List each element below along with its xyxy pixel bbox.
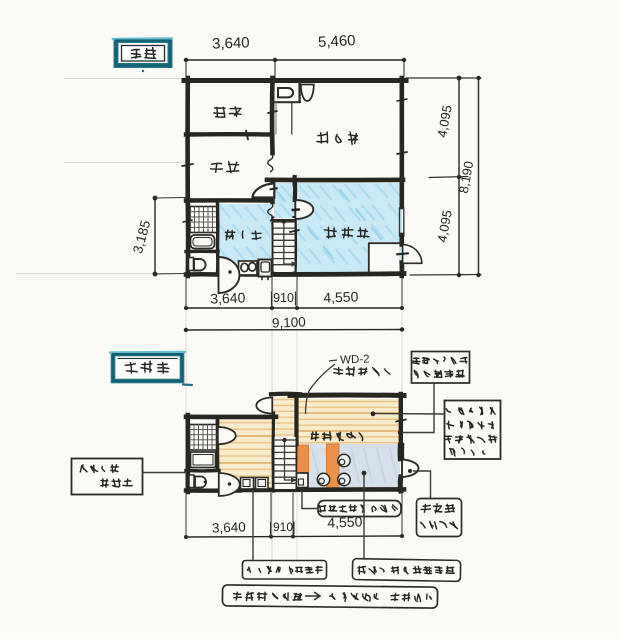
tick right wall upper: [397, 152, 407, 154]
dansa box: [352, 559, 460, 582]
faint vertical guides between plans: [185, 278, 187, 532]
dimension line top 3640-5460: [184, 58, 406, 81]
mid strip left wall: [271, 413, 275, 491]
washbasin counter top plan: [239, 261, 258, 275]
minikitchen leader: [252, 490, 254, 561]
bottom plan top wall right section: [290, 393, 404, 399]
bath wall: [186, 250, 218, 254]
top plan bottom wall left of door: [186, 272, 218, 277]
top plan right wall bottom: [399, 263, 404, 277]
tick closet: [268, 111, 277, 113]
annotation tategu label: [334, 369, 343, 370]
counter orange bar 1: [298, 445, 309, 473]
left dim 3185 line: [153, 196, 186, 277]
salon west door: [293, 180, 298, 200]
toilet box leader: [143, 472, 186, 474]
washer box: [191, 452, 216, 468]
salon entry alcove white patch: [368, 242, 399, 272]
kutsu leader: [374, 413, 444, 416]
nagashidai box: [318, 501, 401, 517]
glass leader: [402, 384, 434, 433]
mini kitchen counter: [241, 478, 269, 490]
tick left wall: [182, 164, 193, 166]
cafe stool 1: [338, 454, 350, 466]
stairs top plan: [273, 218, 298, 272]
room label butsu-shitsu: [215, 107, 225, 109]
stairwell left wall: [271, 218, 275, 273]
genkyo title box: [113, 39, 172, 73]
stairs bottom plan: [275, 437, 298, 489]
cafe wood floor: [297, 399, 401, 444]
tick butsu wall: [246, 131, 248, 140]
bottom plan right wall lower: [398, 477, 404, 491]
salon entry door: [368, 244, 370, 273]
svg-text:5,460: 5,460: [318, 32, 356, 51]
tiled bath room: [190, 207, 217, 233]
bathtub: [191, 235, 215, 249]
svg-text:910: 910: [273, 291, 294, 305]
bottom plan right wall upper: [399, 394, 403, 446]
bottom plan left wall: [186, 415, 191, 492]
top plan right wall mid: [399, 235, 404, 245]
kitchen to waiting room door: [253, 184, 275, 198]
cafe stool 3: [338, 473, 350, 485]
bottom plan top wall left section: [186, 414, 276, 419]
faint guide line left y78: [64, 78, 186, 80]
svg-text:3,640: 3,640: [210, 289, 246, 306]
stairwell white patch: [272, 218, 296, 272]
top plan right wall upper: [399, 78, 404, 207]
mid strip right wall: [294, 396, 298, 444]
glass box: [412, 352, 470, 384]
cafe stool 2: [317, 473, 329, 485]
center vertical wall upper: [270, 78, 275, 153]
salon left wall: [293, 218, 298, 273]
bottom plan right wall block: [398, 446, 405, 458]
top plan left wall lower: [186, 203, 191, 276]
toilet door arc: [301, 85, 314, 102]
washroom door: [218, 427, 236, 444]
cafe label: [311, 433, 318, 435]
counter orange bar 2: [327, 444, 340, 488]
room label chubou: [212, 162, 222, 165]
svg-text:3,640: 3,640: [212, 519, 246, 535]
svg-text:4,550: 4,550: [323, 288, 359, 305]
room label sushi-ya: [318, 134, 327, 136]
top plan outer top wall: [184, 78, 406, 83]
renovated wood floor middle strip: [274, 397, 296, 437]
naibukabe box: [222, 585, 437, 608]
cafe blue-gray floor: [308, 444, 400, 488]
renovated wood floor left section: [219, 419, 273, 489]
wd-2 leader: [306, 360, 338, 414]
toilet fixture bottom plan: [189, 475, 194, 488]
toilet door bottom plan: [219, 473, 240, 496]
salon top wall: [267, 178, 403, 183]
toilet-inside box: [72, 459, 143, 495]
closet lines: [291, 103, 293, 134]
kutsu box: [445, 401, 501, 460]
svg-text:910: 910: [273, 520, 293, 534]
mid strip top door: [256, 398, 272, 414]
toilet fixture left: [189, 258, 194, 271]
svg-text:9,100: 9,100: [272, 314, 306, 330]
dim line 9100: [184, 327, 404, 332]
bottom plan bottom wall: [186, 488, 240, 493]
removal squiggle upper: [268, 154, 273, 172]
faint guide line left y273: [16, 273, 186, 275]
wall below butsu room: [186, 132, 272, 137]
svg-text:WD-2: WD-2: [340, 353, 370, 366]
nagashidai leader: [302, 489, 318, 509]
bath right wall: [216, 203, 220, 251]
top plan left wall: [185, 78, 190, 203]
room label hikaeshitsu: [226, 231, 235, 233]
genkan box: [417, 499, 462, 537]
toilet partition top plan: [272, 101, 300, 103]
top plan bottom wall right of door: [239, 271, 404, 277]
room label biyouin: [325, 230, 337, 232]
cafe small sink box: [297, 473, 309, 488]
mid strip right wall lower: [294, 444, 297, 490]
kaishugo title box: [110, 352, 192, 385]
washroom tile grid: [190, 425, 217, 451]
entrance door bottom plan: [402, 460, 419, 478]
washroom bottom wall: [186, 469, 219, 473]
center vertical wall mid: [270, 180, 274, 202]
dansa leader: [363, 474, 365, 561]
waiting room south door: [219, 257, 240, 293]
removal squiggle lower: [268, 203, 273, 221]
faint guide line left y162: [64, 162, 186, 164]
minikitchen box: [243, 561, 327, 580]
right wall window: [399, 208, 401, 236]
washroom right wall: [215, 417, 219, 470]
genkan leader: [413, 471, 431, 498]
wc right wall: [216, 251, 220, 274]
tick right wall bottom plan: [396, 420, 406, 422]
right dim lines: [406, 76, 481, 278]
kitchen bottom wall: [186, 198, 272, 203]
svg-text:3,640: 3,640: [212, 34, 250, 52]
bottom plan top wall mid strip: [271, 392, 300, 397]
bottom dim line: [184, 493, 404, 539]
dim line mid 3640-910-4550: [184, 277, 404, 310]
tick salon left wall: [290, 230, 299, 232]
appliance square top plan: [259, 260, 272, 277]
tick kitchen left wall: [183, 220, 192, 222]
toilet bowl top plan: [278, 88, 293, 97]
